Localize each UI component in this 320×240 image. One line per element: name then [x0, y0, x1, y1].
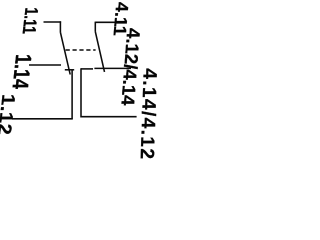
vertical lead down to 1.12: [71, 70, 73, 119]
mechanical coupling dashed link: [66, 49, 96, 51]
svg-text:4.14/4.12: 4.14/4.12: [136, 68, 160, 160]
wire corner down from 1.11: [59, 21, 61, 32]
terminal 1.14 lead wire: [29, 64, 61, 66]
fixed contact bar pole 1: [65, 69, 74, 71]
vertical lead down to 4.14/4.12 wire: [81, 68, 137, 117]
fixed contact bar / lead to 4.12/4.14: [94, 67, 131, 69]
movable contact blade pole 1: [60, 32, 70, 74]
svg-text:1.11: 1.11: [18, 7, 41, 33]
wire corner down from 4.11: [94, 22, 96, 32]
terminal 4.11 lead wire: [95, 21, 116, 23]
terminal 1.12 lead wire: [12, 118, 73, 120]
fixed contact bar pole 4 left: [81, 68, 93, 70]
movable contact blade pole 4: [95, 32, 104, 72]
svg-text:1.14: 1.14: [7, 54, 35, 90]
terminal 1.11 lead wire: [44, 21, 62, 23]
